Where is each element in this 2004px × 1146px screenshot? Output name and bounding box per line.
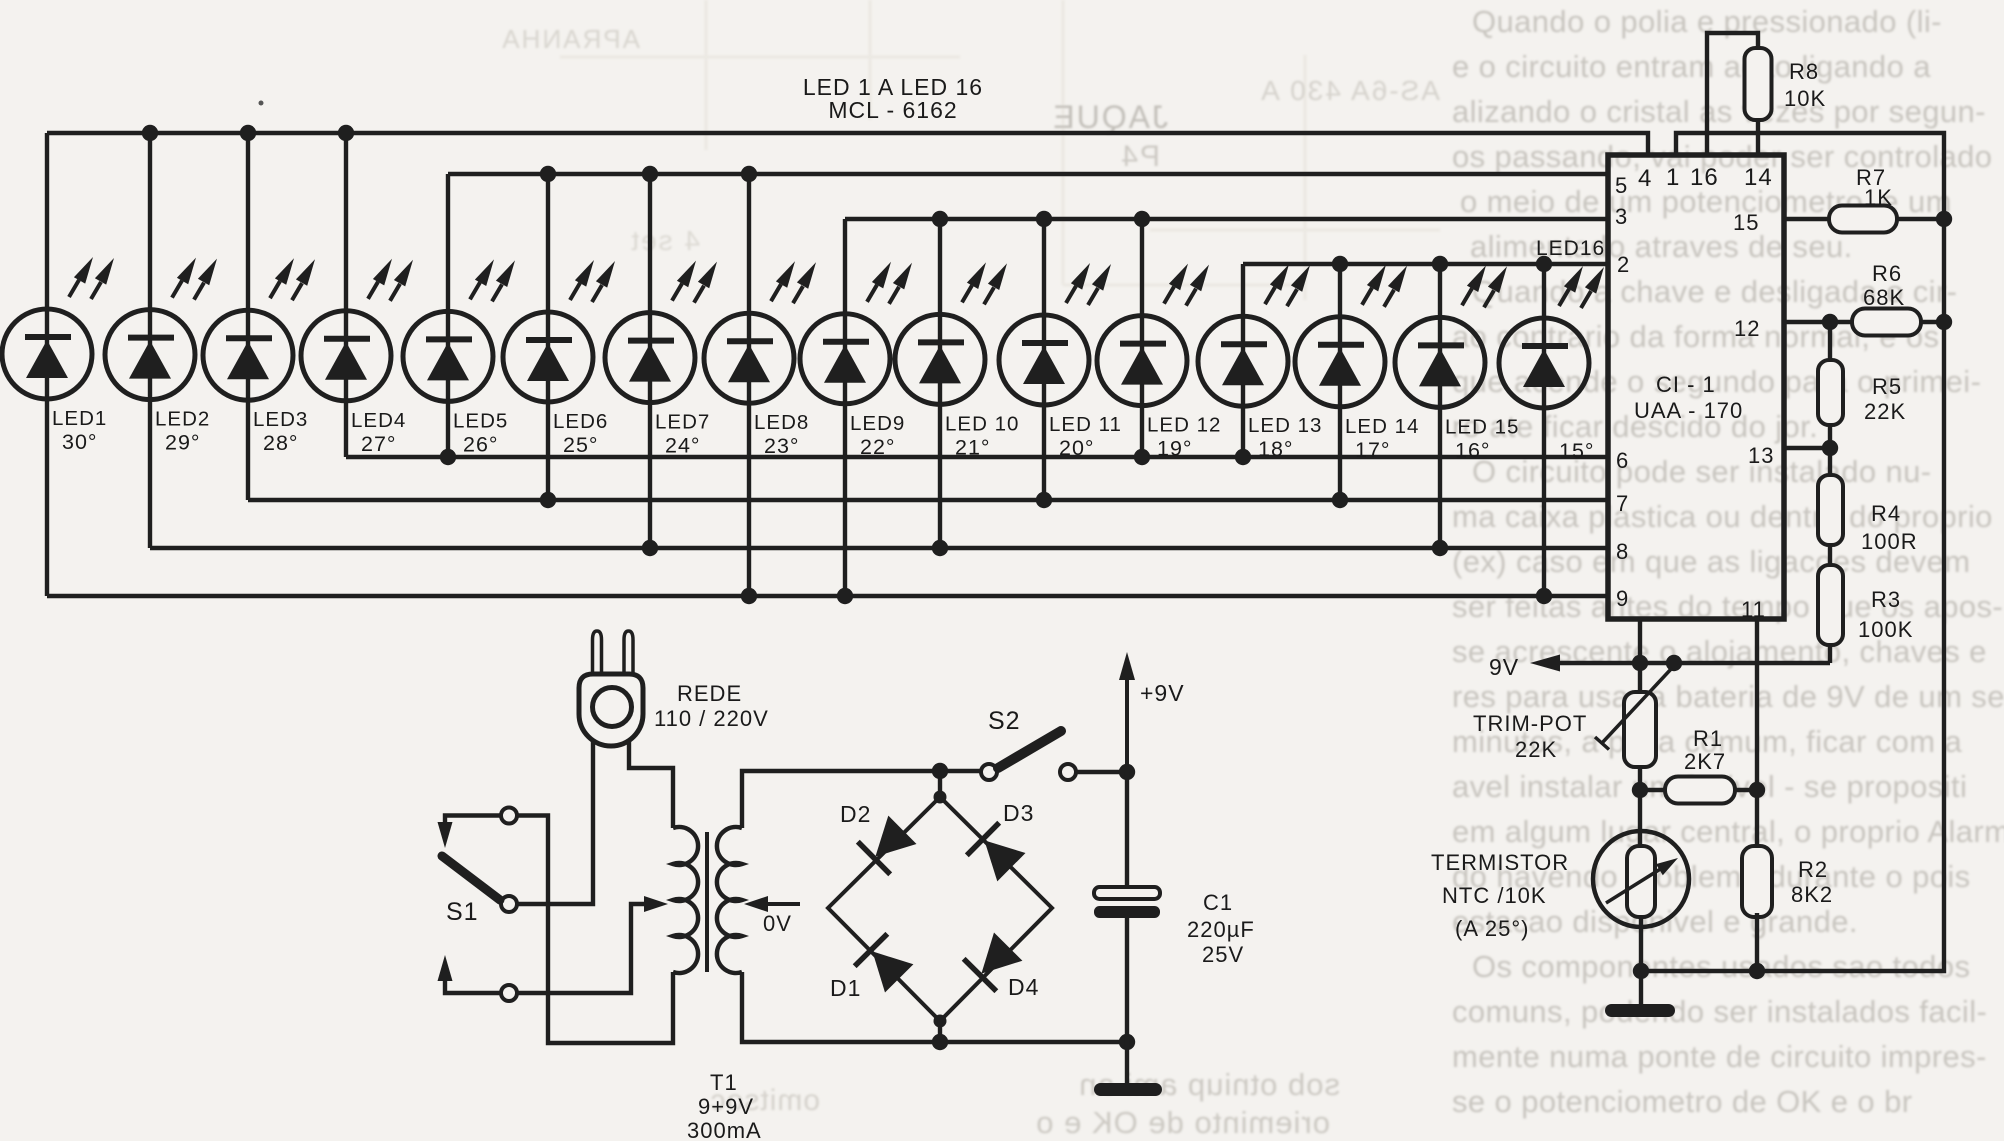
svg-text:D2: D2	[840, 801, 871, 827]
svg-text:comuns, podendo ser instalados: comuns, podendo ser instalados facil-	[1452, 994, 1987, 1029]
junction dots R1	[1632, 782, 1648, 798]
wire trimpot to R1 node and thermistor	[1638, 767, 1642, 846]
svg-text:18°: 18°	[1258, 437, 1294, 461]
svg-text:TRIM-POT: TRIM-POT	[1473, 711, 1587, 736]
LED7	[648, 174, 652, 548]
svg-text:25°: 25°	[563, 433, 599, 457]
svg-text:25V: 25V	[1202, 942, 1244, 967]
svg-text:S1: S1	[446, 898, 479, 926]
trim-pot 22K body	[1624, 692, 1656, 767]
svg-text:30°: 30°	[62, 430, 98, 454]
transformer T1 core	[705, 832, 709, 972]
LED4	[344, 133, 348, 457]
svg-text:100K: 100K	[1858, 617, 1913, 642]
svg-text:LED9: LED9	[850, 412, 905, 435]
thermistor body	[1627, 846, 1655, 917]
svg-text:D3: D3	[1003, 800, 1034, 826]
svg-text:220µF: 220µF	[1187, 917, 1255, 942]
svg-text:26°: 26°	[463, 432, 499, 456]
svg-text:LED 11: LED 11	[1049, 413, 1122, 436]
svg-text:1K: 1K	[1864, 185, 1893, 210]
wire S1 top contact to primary bottom	[517, 816, 673, 1044]
LED8	[747, 174, 751, 596]
resistor R3	[1818, 565, 1843, 645]
scan speck	[259, 101, 264, 106]
wire R8 to pin 14	[1756, 120, 1760, 155]
svg-text:13: 13	[1748, 443, 1774, 468]
LED5	[446, 174, 450, 457]
wire R3 to 9V line	[1828, 645, 1832, 663]
svg-text:15°: 15°	[1559, 439, 1595, 463]
svg-text:LED3: LED3	[253, 408, 308, 431]
junction dots right rail	[1936, 211, 1952, 227]
svg-text:11: 11	[1741, 597, 1766, 622]
resistor R1	[1665, 777, 1735, 804]
wire S2 to +9V node	[1076, 770, 1127, 774]
op-amp IC CI-1 UAA-170	[1608, 155, 1784, 619]
svg-text:10K: 10K	[1784, 86, 1826, 111]
wire pin 12 to node	[1784, 320, 1852, 324]
svg-text:APRANHA: APRANHA	[500, 24, 640, 54]
svg-text:alimentado atraves de seu.: alimentado atraves de seu.	[1470, 229, 1853, 264]
svg-text:6: 6	[1616, 448, 1629, 473]
svg-text:alizando o cristal as vezes po: alizando o cristal as vezes por segun-	[1452, 94, 1986, 129]
transformer T1 secondary winding	[717, 827, 742, 973]
+9V arrow	[1125, 678, 1129, 772]
svg-text:UAA - 170: UAA - 170	[1634, 398, 1743, 423]
svg-text:LED6: LED6	[553, 410, 608, 433]
diode D2	[858, 842, 890, 875]
svg-text:R1: R1	[1693, 726, 1723, 751]
resistor R7	[1829, 206, 1897, 233]
LED9	[843, 219, 847, 596]
diode D4	[964, 959, 997, 991]
wire bottom bus pin 6 (LED4,5,12,13)	[346, 455, 1608, 459]
diode bridge diamond	[828, 797, 1052, 1021]
svg-text:LED 15: LED 15	[1445, 415, 1519, 438]
thermistor NTC circle	[1593, 831, 1689, 927]
svg-text:1: 1	[1666, 164, 1680, 191]
svg-text:R4: R4	[1871, 501, 1901, 526]
wire bridge bottom stub	[938, 1021, 942, 1042]
svg-text:MCL - 6162: MCL - 6162	[828, 97, 957, 123]
transformer T1 primary winding	[673, 827, 698, 973]
diode D1	[855, 934, 888, 966]
svg-text:R6: R6	[1872, 261, 1902, 286]
LED2	[148, 133, 152, 548]
svg-text:LED 12: LED 12	[1147, 414, 1221, 437]
svg-text:(A 25°): (A 25°)	[1455, 916, 1530, 941]
ground under C1	[1094, 1083, 1162, 1096]
svg-text:R8: R8	[1789, 59, 1819, 84]
svg-text:O circuito pode ser instalado: O circuito pode ser instalado nu-	[1472, 454, 1932, 489]
wire top bus LED13-LED16 to pin 2	[1243, 262, 1608, 266]
LED3	[246, 133, 250, 500]
svg-text:22K: 22K	[1864, 399, 1906, 424]
wire top bus LED5-LED8 to pin 5	[448, 172, 1608, 176]
S2 lever	[998, 731, 1061, 768]
LED16	[1542, 264, 1546, 596]
9V arrow	[1530, 655, 1560, 672]
LED13	[1241, 264, 1245, 457]
resistor R5	[1818, 360, 1843, 425]
svg-text:D1: D1	[830, 975, 861, 1001]
junction dots 9V line	[1632, 655, 1648, 671]
S1 lever	[442, 856, 500, 900]
svg-text:3: 3	[1615, 204, 1628, 229]
LED1	[45, 133, 49, 596]
svg-text:e o circuito entram acao ligan: e o circuito entram acao ligando a	[1452, 49, 1931, 84]
svg-text:AS-6A 430 A: AS-6A 430 A	[1259, 75, 1440, 106]
svg-text:+9V: +9V	[1140, 680, 1185, 706]
wire bottom bus pin 8 (LED2,7,10,15)	[150, 546, 1608, 550]
svg-text:7: 7	[1616, 491, 1629, 516]
capacitor C1 plates	[1094, 887, 1160, 899]
svg-text:LED7: LED7	[655, 411, 710, 434]
svg-text:16: 16	[1690, 164, 1719, 191]
capacitor C1 wire bottom	[1125, 918, 1129, 1083]
svg-text:LED5: LED5	[453, 409, 508, 432]
svg-text:9+9V: 9+9V	[698, 1094, 754, 1119]
S1 top stub with arrow	[445, 816, 500, 825]
switch S2 right contact	[1060, 764, 1076, 780]
svg-text:15: 15	[1733, 210, 1759, 235]
svg-text:300mA: 300mA	[687, 1118, 762, 1141]
svg-text:22K: 22K	[1515, 737, 1557, 762]
svg-text:5: 5	[1615, 173, 1628, 198]
svg-text:LED2: LED2	[155, 408, 210, 431]
LED11	[1042, 219, 1046, 500]
svg-text:S2: S2	[988, 707, 1021, 735]
svg-text:110 / 220V: 110 / 220V	[654, 706, 769, 731]
wire secondary top to S2	[742, 771, 981, 828]
svg-text:REDE: REDE	[677, 681, 742, 706]
svg-text:res para usar a bateria de 9V: res para usar a bateria de 9V de um se-	[1452, 679, 2004, 714]
wire pin 13 to node	[1784, 446, 1830, 450]
switch S1 bottom contact	[501, 985, 517, 1001]
svg-text:4 set: 4 set	[629, 225, 700, 256]
svg-text:12: 12	[1734, 316, 1760, 341]
svg-text:2K7: 2K7	[1684, 749, 1726, 774]
wire bridge top stub	[938, 771, 942, 797]
wire S1 bottom contact to primary tap	[517, 904, 644, 993]
svg-text:orieminto de OK e o: orieminto de OK e o	[1035, 1105, 1330, 1140]
wire plug right to primary top	[629, 741, 673, 828]
wire top bus LED1-LED4 to pin 4	[47, 133, 1648, 155]
LED10	[938, 219, 942, 548]
svg-text:LED16: LED16	[1536, 237, 1605, 260]
junction dots bottom line	[932, 1034, 948, 1050]
svg-text:9: 9	[1616, 586, 1629, 611]
bus junction dots	[142, 125, 158, 141]
wire node to R5	[1828, 322, 1832, 360]
svg-text:8: 8	[1616, 539, 1629, 564]
svg-text:100R: 100R	[1861, 529, 1918, 554]
svg-text:8K2: 8K2	[1791, 882, 1833, 907]
svg-text:4: 4	[1638, 165, 1652, 192]
switch S1 common contact	[501, 896, 517, 912]
svg-text:NTC /10K: NTC /10K	[1442, 883, 1547, 908]
svg-text:JAQUE: JAQUE	[1051, 99, 1168, 135]
thermistor arrow	[1606, 868, 1662, 903]
svg-text:mente numa ponte de circuito i: mente numa ponte de circuito impres-	[1452, 1039, 1987, 1074]
svg-text:2: 2	[1617, 252, 1630, 277]
svg-text:0V: 0V	[763, 911, 792, 936]
svg-text:R3: R3	[1871, 587, 1901, 612]
wire R2 bottom	[1755, 913, 1759, 971]
svg-text:D4: D4	[1008, 974, 1039, 1000]
svg-text:23°: 23°	[764, 434, 800, 458]
svg-text:LED1: LED1	[52, 407, 107, 430]
wire secondary bottom to C1	[742, 972, 1127, 1042]
svg-text:em algum lugar central, o prop: em algum lugar central, o proprio Alarm	[1452, 814, 2004, 849]
resistor R2	[1742, 846, 1772, 917]
resistor R6	[1852, 309, 1921, 336]
svg-text:19°: 19°	[1157, 437, 1193, 461]
svg-text:LED8: LED8	[754, 411, 809, 434]
svg-text:16°: 16°	[1455, 438, 1491, 462]
wire pin 15 to R7	[1784, 217, 1829, 221]
wire top bus LED9-LED12 to pin 3	[845, 217, 1608, 221]
mains plug REDE	[593, 631, 602, 674]
svg-text:27°: 27°	[361, 432, 397, 456]
wire R7 to rail	[1897, 217, 1944, 221]
svg-text:P4: P4	[1119, 140, 1160, 173]
svg-text:20°: 20°	[1059, 436, 1095, 460]
svg-text:21°: 21°	[955, 435, 991, 459]
LED14	[1338, 264, 1342, 500]
svg-text:R5: R5	[1872, 374, 1902, 399]
junction dot bridge top corner	[934, 791, 947, 804]
ground under thermistor	[1605, 1004, 1675, 1017]
wire R1 left lead	[1640, 788, 1665, 792]
wire pin 1 to right rail and rail down to bottom	[1641, 133, 1944, 971]
diode D3	[967, 823, 999, 856]
wire pin 11 down	[1755, 619, 1759, 848]
svg-text:28°: 28°	[263, 431, 299, 455]
wire R4 to R3	[1828, 545, 1832, 565]
resistor R4	[1818, 475, 1843, 545]
svg-text:LED4: LED4	[351, 409, 406, 432]
svg-text:22°: 22°	[860, 435, 896, 459]
LED15	[1438, 264, 1442, 548]
wire bottom bus pin 9 (LED1,8,9,16)	[47, 594, 1608, 598]
junction dot top line	[932, 763, 948, 779]
svg-text:Os componentes usados sao todo: Os componentes usados sao todos	[1472, 949, 1970, 984]
svg-text:R2: R2	[1798, 857, 1828, 882]
S1 bottom stub with arrow	[445, 979, 501, 993]
svg-text:68K: 68K	[1863, 285, 1905, 310]
switch S2 left contact	[981, 764, 997, 780]
wire R6 to rail	[1921, 320, 1944, 324]
svg-text:CI - 1: CI - 1	[1656, 372, 1716, 397]
svg-text:14: 14	[1744, 164, 1773, 191]
wire IC pin 10 down to trimpot	[1638, 619, 1642, 692]
wire 9V line	[1550, 661, 1830, 665]
resistor R8	[1745, 48, 1772, 120]
svg-text:17°: 17°	[1355, 438, 1391, 462]
junction dot +9V node	[1119, 764, 1135, 780]
svg-text:LED 13: LED 13	[1248, 414, 1322, 437]
svg-text:TERMISTOR: TERMISTOR	[1431, 850, 1569, 875]
svg-text:9V: 9V	[1489, 654, 1519, 680]
svg-text:C1: C1	[1203, 890, 1233, 915]
wire R1 right lead	[1735, 788, 1757, 792]
capacitor C1 wire top	[1125, 772, 1129, 888]
LED6	[546, 174, 550, 500]
LED12	[1140, 219, 1144, 457]
trim-pot wiper arrow	[1602, 668, 1672, 743]
wire bottom bus pin 7 (LED3,6,11,14)	[248, 498, 1608, 502]
svg-text:24°: 24°	[665, 434, 701, 458]
wire plug left to S1 common	[517, 740, 593, 904]
junction dots bottom line	[1633, 963, 1649, 979]
switch S1 top contact	[501, 808, 517, 824]
svg-text:LED 14: LED 14	[1345, 415, 1419, 438]
secondary tap 0V	[744, 896, 768, 912]
wire R5 to pin13 node	[1828, 425, 1832, 475]
svg-text:se o potenciometro de OK e: se o potenciometro de OK e o br	[1452, 1084, 1912, 1119]
wire pin 16 loop to R8	[1707, 33, 1758, 155]
svg-text:T1: T1	[710, 1070, 738, 1095]
svg-text:29°: 29°	[165, 431, 201, 455]
svg-text:LED 10: LED 10	[945, 412, 1019, 435]
junction dot bridge bottom corner	[934, 1015, 947, 1028]
wire thermistor bottom	[1639, 917, 1643, 1004]
